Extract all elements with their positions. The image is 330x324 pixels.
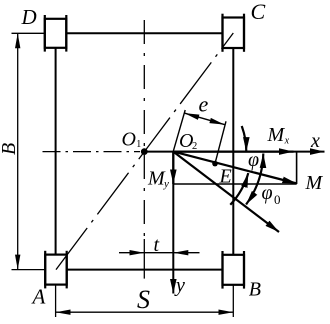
svg-text:t: t: [154, 234, 160, 256]
vector Mx: [173, 151, 293, 153]
node E: [212, 161, 218, 167]
dimension e extension lines: [173, 110, 226, 164]
svg-text:y: y: [174, 275, 185, 297]
svg-text:x: x: [284, 136, 290, 147]
vector M: [173, 152, 296, 184]
diagonal centerline A-C: [56, 33, 233, 270]
plate outline: [56, 33, 234, 269]
arc phi lower: [230, 173, 248, 205]
dimension B extension lines: [12, 33, 45, 269]
bolt C: [223, 14, 245, 52]
svg-text:φ: φ: [248, 149, 259, 171]
svg-text:C: C: [251, 0, 266, 24]
svg-text:φ: φ: [262, 182, 273, 204]
dimension S extension lines: [56, 285, 234, 317]
svg-text:M: M: [267, 124, 286, 146]
label Mx: [267, 124, 290, 147]
svg-text:e: e: [199, 92, 209, 117]
vector My: [172, 152, 174, 184]
dimension e line: [184, 113, 224, 125]
x-axis: [144, 151, 324, 153]
svg-text:1: 1: [136, 139, 141, 150]
svg-text:S: S: [137, 285, 150, 314]
t extension: centerline stub: [143, 239, 145, 279]
label O2: [179, 130, 197, 152]
dimension B line: [17, 33, 19, 269]
label My: [147, 168, 169, 190]
svg-text:0: 0: [274, 192, 281, 207]
arrow phi0 direction: [173, 152, 279, 232]
y-axis: [172, 152, 174, 294]
label phi0: [262, 182, 281, 207]
dimension S line: [56, 311, 234, 313]
label O1: [122, 128, 142, 150]
svg-text:M: M: [305, 172, 324, 194]
svg-text:E: E: [219, 166, 232, 188]
svg-text:B: B: [0, 143, 20, 155]
svg-text:y: y: [163, 178, 169, 190]
svg-text:A: A: [31, 284, 46, 308]
vertical centerline: [143, 20, 145, 236]
node O1: [141, 148, 148, 155]
bolt A: [45, 251, 66, 289]
horizontal centerline: [43, 151, 141, 153]
arc phi upper: [242, 126, 247, 152]
arc phi0: [246, 154, 263, 205]
bolt B: [223, 251, 245, 289]
svg-text:B: B: [249, 279, 261, 301]
dimension t line with outside arrows: [119, 252, 200, 254]
svg-text:D: D: [21, 5, 37, 29]
svg-text:x: x: [310, 130, 320, 152]
svg-text:2: 2: [192, 141, 197, 152]
bolt D: [45, 15, 67, 52]
svg-text:O: O: [122, 128, 136, 150]
component rectangle: [173, 152, 296, 184]
